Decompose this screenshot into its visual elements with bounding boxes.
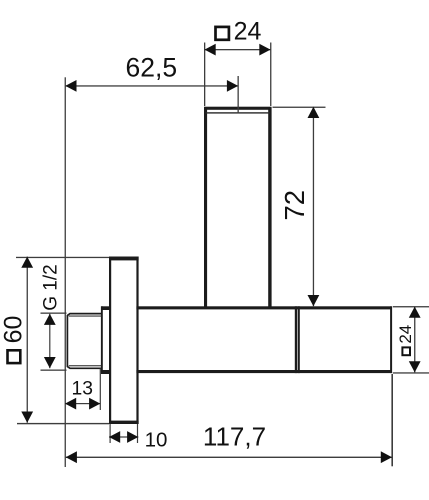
dim 10: right arrow: [127, 431, 138, 443]
dim sq60: bottom extension line: [17, 423, 109, 424]
dim 10: left arrow: [109, 431, 120, 443]
wall plate bottom edge: [109, 421, 139, 424]
dim 117,7: right arrow: [381, 451, 392, 463]
dim 62,5: right arrow: [227, 80, 238, 92]
collar bottom stub: [101, 370, 109, 374]
nipple thread root bottom: [69, 365, 102, 366]
dim 62,5: long left extension line: [65, 77, 66, 467]
dim G 1/2: top extension line: [41, 313, 67, 314]
svg-text:24: 24: [234, 18, 262, 46]
dim sq60: dimension line: [27, 257, 28, 423]
svg-text:24: 24: [396, 325, 415, 344]
dim G 1/2: dimension line: [49, 314, 50, 369]
dim sq24 top: dimension line: [205, 49, 271, 50]
dim sq60: square symbol: [8, 350, 21, 363]
body division line right: [298, 306, 300, 373]
body top edge: [136, 306, 391, 309]
collar left edge: [101, 306, 103, 374]
body division line left: [295, 306, 297, 373]
dim sq60: top extension line: [16, 257, 109, 258]
dim sq24 right: bottom extension line: [393, 372, 429, 373]
collar top stub: [101, 306, 109, 310]
spout cap inner line: [206, 112, 271, 113]
dim G 1/2: top arrow: [44, 314, 56, 325]
nipple thread root top: [69, 316, 102, 317]
spout tube left wall: [204, 107, 207, 307]
dim sq60: bottom arrow: [21, 412, 33, 423]
svg-text:62,5: 62,5: [126, 52, 178, 82]
dim 117,7: dimension line: [66, 457, 392, 458]
svg-text:G 1/2: G 1/2: [40, 264, 61, 310]
dim 13: left arrow: [65, 398, 76, 410]
dim sq24 top: square symbol: [216, 27, 229, 40]
dim 72: top extension line: [273, 107, 326, 108]
dim sq24 right: top extension line: [393, 306, 429, 307]
dim sq24 right: square symbol: [402, 347, 410, 355]
svg-text:60: 60: [0, 316, 27, 344]
dim 72: bottom arrow: [308, 295, 320, 306]
dim sq60: top arrow: [21, 257, 33, 268]
dim sq24 right: bottom arrow: [409, 361, 421, 372]
dim 10: right extension line: [137, 424, 138, 443]
dim sq24 right: dimension line: [414, 307, 415, 373]
dim 62,5: dimension line: [65, 85, 238, 86]
dim 117,7: left arrow: [66, 451, 77, 463]
dim G 1/2: bottom extension line: [41, 370, 67, 371]
wall plate left edge: [109, 257, 111, 425]
dim 10: dimension line: [109, 436, 138, 437]
wall plate right edge: [136, 257, 138, 425]
dim sq24 right: top arrow: [409, 307, 421, 318]
svg-text:13: 13: [71, 378, 92, 399]
dim 62,5: left arrow: [65, 80, 76, 92]
dim sq24 top: right extension line: [270, 43, 271, 107]
dim sq24 top: left extension line: [204, 43, 205, 107]
dim sq24 top: right arrow: [259, 44, 270, 56]
dim 72: dimension line: [313, 107, 314, 306]
dim G 1/2: bottom arrow: [44, 357, 56, 368]
threaded nipple outline: [67, 314, 101, 369]
dim 117,7: right extension line: [391, 374, 393, 466]
dim 13: right extension line: [100, 369, 101, 411]
spout tube right wall: [268, 107, 271, 307]
svg-text:117,7: 117,7: [203, 421, 266, 451]
svg-text:72: 72: [279, 190, 310, 221]
body bottom edge: [136, 370, 391, 373]
dim 13: right arrow: [89, 398, 100, 410]
spout cap top edge: [204, 107, 272, 110]
wall plate top edge: [109, 257, 139, 261]
dim 10: left extension line: [110, 424, 111, 443]
dim 72: top arrow: [308, 107, 320, 118]
dim sq24 top: left arrow: [205, 44, 216, 56]
body right end cap: [390, 306, 392, 373]
svg-text:10: 10: [145, 429, 168, 452]
dim 13: dimension line: [65, 403, 100, 404]
dim 62,5: tube centerline target: [238, 76, 239, 113]
